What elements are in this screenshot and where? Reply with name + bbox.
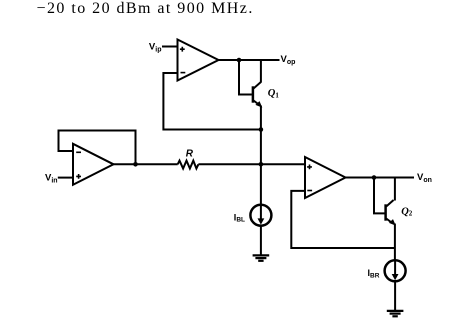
wire IBL to ground xyxy=(260,226,262,255)
wire U1 feedback (minus input to Q1 emitter) xyxy=(163,73,259,130)
transistor Q1 xyxy=(253,59,262,108)
node dot (main cross junction) xyxy=(259,162,264,167)
ground (right) xyxy=(387,311,404,316)
wire Vin to U2 + input xyxy=(58,177,73,179)
node dot (U1 output / Q1 base tap) xyxy=(237,58,242,63)
node dot (U2 output / feedback) xyxy=(133,162,138,167)
current source IBR xyxy=(385,260,406,281)
wire Vip to U1 + input xyxy=(162,46,178,48)
node dot (U3 output / Q2 base tap) xyxy=(372,175,377,180)
wire Q2 emitter down to IBR xyxy=(394,224,396,261)
wire U3 output down to Q2 base xyxy=(374,178,385,214)
wire U3 feedback (minus input to Q2 emitter) xyxy=(291,191,395,248)
wire resistor to U3 + input xyxy=(198,163,305,165)
ground (left) xyxy=(253,255,270,260)
op-amp U2 (left) xyxy=(73,144,114,185)
wire Q1 emitter down to main node xyxy=(260,106,262,206)
wire U1 output down to Q1 base xyxy=(239,60,252,95)
wire U3 output to Von xyxy=(346,177,415,179)
resistor R xyxy=(178,161,199,169)
wire IBR to ground xyxy=(394,281,396,310)
wire U2 feedback loop xyxy=(59,131,136,164)
wire U1 output to Vop xyxy=(219,59,280,61)
node dot (Q1 emitter / U1 feedback) xyxy=(259,127,264,132)
transistor Q2 xyxy=(386,177,396,226)
wire U2 output to resistor xyxy=(114,163,178,165)
op-amp U3 (right) xyxy=(305,157,346,198)
op-amp U1 (top) xyxy=(178,40,219,81)
svg-text:R: R xyxy=(186,149,194,160)
current source IBL xyxy=(250,205,271,226)
svg-text:−20 to 20 dBm at 900 MHz.: −20 to 20 dBm at 900 MHz. xyxy=(37,0,254,17)
